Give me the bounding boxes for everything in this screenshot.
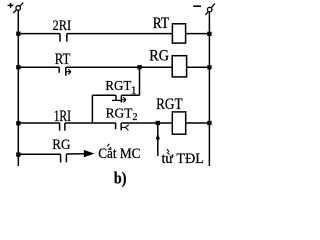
label RG (coil): [149, 47, 169, 64]
wire row3 middle: [65, 122, 116, 124]
node row3 TDL junction: [156, 121, 160, 125]
relay coil RGT: [172, 112, 185, 134]
label 1RI: [54, 108, 71, 125]
node row2-left bus junction: [16, 65, 20, 69]
svg-text:2RI: 2RI: [53, 18, 72, 34]
arrowhead Cat MC pointing right: [84, 150, 95, 157]
wire branch horizontal left: [92, 94, 116, 96]
right bus (-): [208, 12, 210, 166]
wire row3 right: [186, 122, 210, 124]
node row4-left bus junction: [16, 152, 20, 156]
wire branch vertical right (to row2): [139, 67, 141, 95]
wire row2 middle: [66, 66, 172, 68]
node row3-left bus junction: [16, 121, 20, 125]
wire row2 right: [187, 66, 210, 68]
left bus (+): [17, 10, 19, 166]
minus terminal label -: [193, 5, 201, 7]
svg-text:RGT: RGT: [105, 78, 131, 93]
wire branch vertical left (to row3): [91, 95, 93, 123]
label RGT (coil): [156, 96, 183, 113]
svg-text:2: 2: [133, 112, 138, 123]
svg-text:RGT: RGT: [156, 96, 183, 113]
label RGT1: [105, 78, 136, 97]
relay coil RG: [172, 56, 186, 77]
wire row3 right-middle: [121, 122, 172, 124]
wire row2 left: [18, 66, 59, 68]
relay coil RT: [172, 24, 185, 43]
node row1-right bus junction: [207, 32, 211, 36]
contact 2RI: [60, 34, 67, 42]
wire from TDL (vertical): [157, 123, 159, 156]
label 2RI: [53, 18, 72, 34]
svg-text:RGT: RGT: [106, 105, 133, 120]
node row2-right bus junction: [207, 65, 211, 69]
svg-text:RT: RT: [153, 15, 170, 32]
node row3-right bus junction: [207, 121, 211, 125]
label RG (contact): [52, 137, 70, 153]
label tu TDL: [162, 149, 204, 167]
svg-text:1RI: 1RI: [54, 108, 71, 125]
wire row4 left: [18, 153, 60, 155]
svg-text:b): b): [114, 168, 127, 187]
contact RGT1 (time-delay closing): [112, 95, 126, 102]
wire row4 to arrow: [66, 153, 86, 155]
svg-text:RT: RT: [55, 51, 71, 68]
svg-text:RG: RG: [52, 137, 70, 153]
contact RGT2 (time-delay opening): [116, 123, 129, 130]
label b): [114, 168, 127, 187]
wire row1 right: [186, 33, 210, 35]
svg-text:Cắt MC: Cắt MC: [98, 146, 140, 162]
label Cat MC: [98, 144, 140, 162]
wire row1 middle: [67, 33, 173, 35]
plus terminal label +: [8, 3, 14, 8]
wire row3 left: [18, 122, 59, 124]
label RT (coil): [153, 15, 170, 32]
label RT (contact): [55, 51, 71, 68]
contact RT (time-delay closing): [59, 67, 71, 76]
svg-text:1: 1: [131, 85, 137, 97]
wire row1 left: [18, 33, 60, 35]
node row1-left bus junction: [16, 32, 20, 36]
contact RG: [61, 154, 67, 162]
wire branch horizontal right: [121, 94, 139, 96]
svg-text:từ TĐL: từ TĐL: [162, 151, 204, 167]
label RGT2: [106, 105, 138, 123]
node row2 branch junction: [137, 65, 141, 69]
contact 1RI: [60, 123, 65, 131]
left supply switch terminal: [13, 3, 23, 13]
svg-text:RG: RG: [149, 47, 169, 64]
right supply switch terminal: [205, 4, 215, 15]
arrowhead from TDL pointing up: [156, 133, 160, 140]
